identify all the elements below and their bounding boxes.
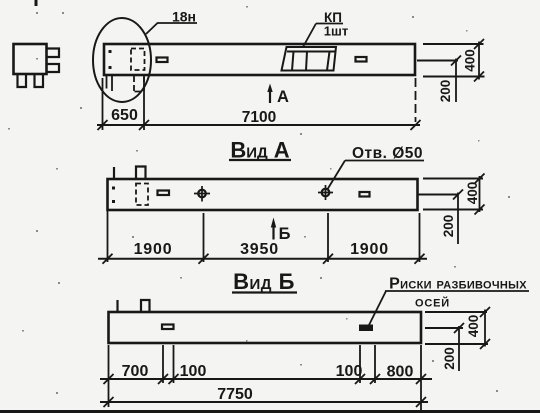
top tick (view A)	[113, 167, 115, 179]
label 18н	[172, 9, 196, 25]
svg-text:1900: 1900	[134, 241, 173, 258]
leader hole	[327, 161, 345, 191]
leader 18н	[146, 23, 158, 35]
dimension line 2 (view Б) 7750	[100, 401, 428, 403]
cross-section leg 1	[18, 75, 27, 88]
label 1900 left	[134, 241, 173, 258]
callout ellipse	[93, 18, 151, 102]
svg-text:1шт: 1шт	[324, 24, 348, 39]
dim extension 650 left	[102, 78, 104, 130]
label 7100	[242, 109, 276, 126]
dimension line view A	[98, 258, 427, 260]
dimension line 1 (view Б)	[100, 378, 432, 380]
riska bar 2 (top view)	[356, 57, 367, 62]
leader riska	[369, 291, 386, 325]
svg-text:100: 100	[336, 363, 363, 380]
view Б right: mid level	[425, 327, 463, 329]
svg-text:400: 400	[463, 49, 478, 72]
dim 400 (view Б)	[484, 310, 486, 347]
dim extension 650 right	[143, 77, 145, 130]
label 800	[387, 364, 414, 381]
top lug (view A)	[136, 167, 146, 180]
svg-text:800: 800	[387, 364, 414, 381]
axis target 1	[198, 190, 206, 198]
svg-text:200: 200	[438, 80, 453, 103]
riska bar 1 (view Б)	[162, 325, 174, 330]
view Б right: extension top	[425, 311, 487, 313]
view A bottom dims extensions	[107, 211, 109, 262]
label KP 1шт	[324, 10, 348, 39]
dim 400 (view A)	[479, 176, 481, 212]
label 3950	[240, 241, 279, 258]
label 100 left	[180, 363, 207, 380]
label Риски разбивочных осей	[389, 276, 527, 311]
svg-text:1900: 1900	[350, 241, 389, 258]
svg-text:700: 700	[122, 363, 149, 380]
view A right: extension top	[423, 178, 483, 180]
dim 200 (view A)	[457, 193, 459, 245]
label 100 right	[336, 363, 363, 380]
section arrow Б	[272, 226, 274, 240]
view Б bottom dims extensions	[108, 345, 110, 407]
label 1900 right	[350, 241, 389, 258]
dashed extension right edge (top view)	[415, 78, 417, 122]
svg-text:Отв. Ø50: Отв. Ø50	[352, 145, 423, 162]
cross-section right tab 1	[47, 49, 60, 58]
svg-text:Б: Б	[279, 225, 291, 243]
label Отв. Ø50	[352, 145, 423, 162]
top view right: extension line bottom	[423, 76, 485, 78]
embedded plate dashed (view A)	[136, 184, 148, 206]
top view right: mid level line	[417, 60, 458, 62]
svg-text:200: 200	[442, 347, 457, 370]
svg-text:Вид А: Вид А	[230, 138, 289, 163]
top view right: extension line top	[423, 43, 484, 45]
svg-text:7750: 7750	[217, 386, 253, 403]
section arrow A	[269, 89, 271, 103]
riska bar 2 (view A)	[360, 192, 370, 197]
hidden leg lines below beam left	[107, 76, 113, 91]
beam outline (view A)	[108, 179, 418, 210]
dimension line 7100	[97, 124, 420, 126]
weld dot 2	[109, 66, 112, 69]
view A right: extension bottom	[423, 209, 483, 211]
top tick (view Б)	[116, 300, 118, 312]
hole Отв.Ø50	[322, 189, 330, 197]
label 650	[111, 107, 138, 124]
svg-text:400: 400	[465, 182, 480, 205]
embedded plate dashed outline (top view)	[131, 49, 145, 71]
svg-text:100: 100	[180, 363, 207, 380]
svg-text:650: 650	[111, 107, 138, 124]
beam outline (view Б)	[109, 312, 422, 343]
view Б right: extension bottom	[425, 343, 488, 345]
weld dot 1	[109, 50, 112, 53]
title Вид А	[230, 138, 289, 163]
cross-section right tab 2	[47, 64, 60, 72]
label 7750	[217, 386, 253, 403]
label 700	[122, 363, 149, 380]
svg-text:3950: 3950	[240, 241, 279, 258]
svg-text:осей: осей	[415, 294, 450, 311]
title Вид Б	[233, 269, 295, 294]
riska bar 1 (view A)	[158, 191, 170, 196]
dim 400 line (top view)	[478, 42, 480, 80]
beam outline (top view)	[104, 44, 415, 75]
svg-text:Вид Б: Вид Б	[233, 269, 295, 294]
svg-text:7100: 7100	[242, 109, 276, 126]
svg-text:Риски разбивочных: Риски разбивочных	[389, 276, 527, 293]
view A right: mid level	[418, 194, 459, 196]
hidden leg dashed below beam right	[134, 76, 144, 92]
dim 200 (view Б)	[458, 326, 460, 371]
riska bar 2 (view Б)	[360, 326, 372, 331]
svg-text:400: 400	[466, 315, 481, 338]
svg-text:200: 200	[441, 215, 456, 238]
channel KP trapezoid	[282, 47, 337, 71]
cross-section body	[14, 44, 47, 74]
cross-section leg 2	[35, 75, 44, 88]
riska bar 1 (top view)	[157, 58, 168, 63]
weld dots (view A)	[112, 187, 115, 190]
svg-text:А: А	[277, 88, 289, 106]
top lug (view Б)	[141, 300, 150, 312]
dim 200 line (top view)	[455, 59, 457, 103]
leader KP	[303, 24, 316, 48]
